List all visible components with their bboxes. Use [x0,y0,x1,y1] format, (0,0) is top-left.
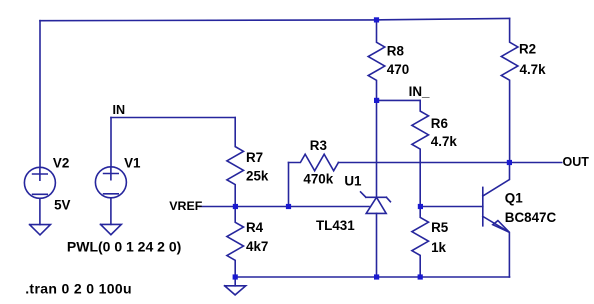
svg-text:PWL(0 0 1 24 2 0): PWL(0 0 1 24 2 0) [67,238,181,254]
svg-text:VREF: VREF [169,199,202,213]
svg-text:4k7: 4k7 [246,239,268,254]
svg-text:R5: R5 [431,220,449,235]
svg-text:Q1: Q1 [505,190,523,205]
svg-text:4.7k: 4.7k [431,134,458,149]
svg-text:R7: R7 [246,150,263,165]
svg-text:R6: R6 [431,116,448,131]
svg-text:R4: R4 [246,220,264,235]
svg-text:5V: 5V [54,198,70,213]
svg-text:R2: R2 [519,42,536,57]
svg-text:1k: 1k [431,240,446,255]
svg-text:470k: 470k [303,172,333,187]
svg-text:OUT: OUT [563,155,590,169]
svg-text:4.7k: 4.7k [520,62,547,77]
svg-text:25k: 25k [246,169,269,184]
svg-text:.tran 0 2 0 100u: .tran 0 2 0 100u [25,281,132,297]
svg-text:470: 470 [387,62,409,77]
svg-text:U1: U1 [344,173,362,188]
svg-text:IN_: IN_ [409,84,430,99]
svg-text:V2: V2 [53,156,69,171]
svg-text:TL431: TL431 [316,218,355,233]
svg-text:BC847C: BC847C [505,210,557,225]
svg-text:IN: IN [113,103,126,117]
svg-text:R3: R3 [310,138,327,153]
svg-text:R8: R8 [387,43,405,58]
svg-text:V1: V1 [124,156,141,171]
